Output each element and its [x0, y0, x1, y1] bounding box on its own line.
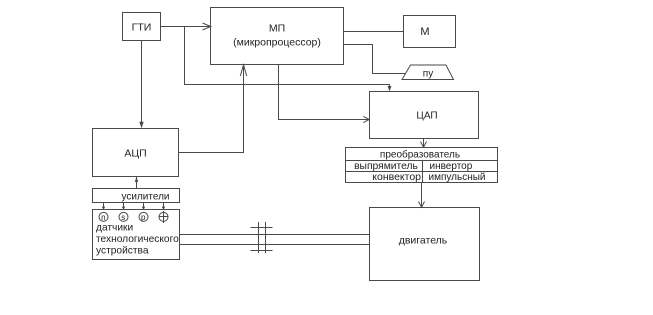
svg-text:s: s — [121, 213, 125, 222]
svg-text:АЦП: АЦП — [124, 148, 146, 160]
svg-text:М: М — [420, 26, 429, 38]
svg-text:ЦАП: ЦАП — [416, 111, 437, 122]
svg-text:ГТИ: ГТИ — [132, 22, 152, 34]
svg-text:импульсный: импульсный — [429, 172, 486, 183]
svg-text:(микропроцессор): (микропроцессор) — [233, 37, 321, 49]
svg-text:датчики: датчики — [96, 223, 133, 234]
svg-text:инвертор: инвертор — [430, 161, 473, 172]
svg-text:технологического: технологического — [96, 234, 179, 245]
svg-text:конвектор: конвектор — [372, 171, 421, 183]
svg-text:устройства: устройства — [96, 246, 149, 257]
svg-text:усилители: усилители — [121, 192, 169, 203]
svg-text:двигатель: двигатель — [399, 235, 448, 247]
svg-text:p: p — [141, 213, 146, 222]
svg-text:МП: МП — [269, 23, 285, 35]
svg-text:пу: пу — [423, 69, 433, 80]
svg-text:n: n — [101, 213, 105, 222]
svg-text:преобразователь: преобразователь — [380, 149, 460, 161]
